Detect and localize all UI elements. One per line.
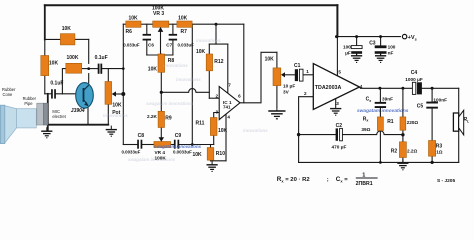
svg-text:1: 1: [306, 69, 309, 74]
svg-text:swagatam innovations: swagatam innovations: [154, 144, 202, 149]
svg-text:S - J205: S - J205: [437, 178, 455, 184]
svg-text:0.0033uF: 0.0033uF: [122, 149, 141, 154]
svg-text:C1: C1: [294, 63, 301, 69]
svg-text:μF: μF: [345, 51, 351, 56]
svg-text:100K: 100K: [155, 156, 167, 161]
svg-text:0.033uF: 0.033uF: [123, 42, 140, 47]
svg-text:Pot: Pot: [112, 110, 120, 116]
svg-text:J3904: J3904: [71, 108, 85, 114]
svg-text:innovations: innovations: [176, 77, 201, 82]
svg-text:C3: C3: [369, 40, 376, 46]
svg-text:C4: C4: [411, 70, 418, 76]
svg-text:10K: 10K: [196, 49, 206, 55]
svg-text:10K: 10K: [112, 103, 122, 109]
svg-text:R11: R11: [196, 121, 205, 127]
svg-text:0.1uF: 0.1uF: [50, 80, 63, 86]
svg-text:swagatam innovations: swagatam innovations: [128, 157, 176, 162]
svg-text:1Ω: 1Ω: [436, 149, 443, 154]
svg-text:10K: 10K: [178, 16, 188, 22]
svg-text:innovations: innovations: [163, 63, 188, 68]
svg-text:;: ;: [327, 177, 329, 183]
svg-text:2.2Ω: 2.2Ω: [407, 149, 418, 154]
svg-text:470 μF: 470 μF: [332, 144, 347, 149]
svg-text:VR 3: VR 3: [153, 11, 164, 17]
svg-text:0.1uF: 0.1uF: [95, 55, 108, 61]
svg-text:10K: 10K: [193, 152, 203, 158]
svg-text:TDA2003A: TDA2003A: [315, 85, 342, 91]
svg-text:100: 100: [343, 45, 351, 50]
svg-text:Pipe: Pipe: [24, 101, 33, 106]
svg-text:3: 3: [336, 101, 339, 106]
svg-text:R12: R12: [214, 59, 223, 65]
svg-text:innovations: innovations: [243, 128, 268, 133]
svg-text:0.033uF: 0.033uF: [178, 42, 195, 47]
svg-text:10K: 10K: [49, 60, 59, 66]
svg-text:5: 5: [338, 70, 341, 75]
svg-text:10K: 10K: [265, 56, 275, 62]
svg-text:swagatam innovations: swagatam innovations: [146, 101, 194, 106]
svg-text:2: 2: [304, 91, 307, 96]
svg-text:R2: R2: [391, 149, 398, 155]
svg-text:C7: C7: [166, 42, 172, 47]
svg-text:C6: C6: [148, 42, 154, 47]
svg-text:100nF: 100nF: [433, 97, 447, 102]
svg-text:100K: 100K: [67, 55, 79, 61]
svg-text:39nF: 39nF: [382, 96, 393, 101]
svg-text:VR 4: VR 4: [155, 150, 166, 155]
svg-text:220Ω: 220Ω: [407, 120, 419, 125]
svg-text:C5: C5: [417, 104, 424, 110]
svg-text:10K: 10K: [129, 16, 139, 22]
svg-text:nF: nF: [388, 51, 394, 56]
svg-text:C9: C9: [175, 133, 182, 139]
svg-text:2: 2: [216, 93, 219, 98]
svg-text:3V: 3V: [283, 90, 290, 95]
svg-text:0.0033uF: 0.0033uF: [173, 149, 192, 154]
svg-text:Cx =: Cx =: [336, 176, 348, 183]
svg-text:6: 6: [238, 93, 241, 98]
svg-text:741: 741: [223, 104, 231, 109]
svg-text:3: 3: [216, 109, 219, 114]
svg-text:electret: electret: [52, 114, 66, 119]
svg-text:innovations: innovations: [196, 38, 221, 43]
svg-text:10 μF: 10 μF: [283, 84, 295, 89]
svg-text:R7: R7: [181, 29, 188, 35]
svg-text:R1: R1: [387, 119, 394, 125]
svg-text:4: 4: [227, 114, 230, 119]
svg-text:C8: C8: [138, 133, 145, 139]
svg-text:39Ω: 39Ω: [361, 127, 370, 132]
svg-text:10K: 10K: [148, 66, 158, 72]
svg-text:4: 4: [360, 84, 363, 89]
svg-text:10K: 10K: [62, 26, 72, 32]
svg-text:R9: R9: [165, 115, 172, 121]
svg-text:7: 7: [228, 82, 231, 87]
svg-text:2ΠBR1: 2ΠBR1: [356, 181, 373, 187]
svg-text:R10: R10: [216, 151, 225, 157]
svg-text:10K: 10K: [218, 128, 228, 134]
svg-text:100: 100: [388, 45, 396, 50]
svg-text:swagatam innovations: swagatam innovations: [357, 108, 409, 114]
svg-text:Cone: Cone: [3, 92, 14, 97]
svg-text:R8: R8: [168, 58, 175, 64]
svg-text:2.2K: 2.2K: [147, 114, 158, 119]
svg-text:1000 μF: 1000 μF: [405, 77, 423, 82]
svg-text:C2: C2: [336, 123, 343, 129]
svg-text:R6: R6: [126, 29, 133, 35]
